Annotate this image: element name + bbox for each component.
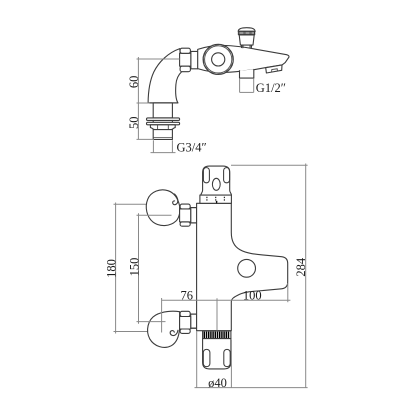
dim line 284 vertical [305,164,307,388]
rib bars [204,332,228,338]
index pointer [216,201,218,203]
top wall escutcheon blob [146,190,179,226]
ext line body left down to dia dim [196,331,198,388]
leg bottom edge line [148,102,178,104]
top union hex nut [180,209,191,222]
G3/4 leader ext lines [153,140,172,152]
G1/2 ext lines [240,78,254,92]
dim line 150 vertical [138,213,140,323]
diverter knurl band [238,31,254,34]
ext line body right down to dia dim [230,340,232,388]
ext line 150 top [137,214,172,216]
deck nut facet lines [158,125,169,130]
dim line 76/100 horizontal [162,299,291,301]
diverter tapered body [239,35,254,45]
svg-text:ø40: ø40 [208,376,227,390]
ext line at valve centerline [216,298,218,330]
svg-text:60: 60 [127,76,141,89]
nut bottom facet band [180,66,190,72]
control knob outer circle [203,44,233,74]
threaded tail pipe G3/4 [153,130,172,140]
scale tick dots [207,197,225,201]
valve body with right protrusion [197,203,288,330]
faucet leg (curved column) [148,49,181,103]
base washer plate 2 [147,122,180,125]
ribbed grip band [203,331,231,339]
bottom union hex nut [180,317,191,330]
handle center oval [212,178,220,190]
ext line 180 top (under blob) [114,203,166,205]
svg-text:150: 150 [127,258,141,277]
ext line at body axis (60 top) [137,58,180,60]
temperature handle (top knob) [201,166,232,195]
G3/4 leader line [151,152,176,154]
handle left groove [203,168,209,183]
svg-text:50: 50 [127,116,141,129]
ext line at thread bottom (50) [137,138,155,140]
top union curl [173,194,178,205]
top union pipe [191,208,197,223]
connector cylinder nut-to-body [191,51,198,68]
base shank cylinder [153,103,172,118]
G1/2 dim line [240,91,254,93]
diverter knob dome cap [238,28,255,32]
thread relief line [153,137,172,139]
diverter knurl hatch [240,32,254,35]
hex nut on body left [180,53,191,66]
bottom knob right groove [224,349,230,366]
aerator inner notch [272,69,278,72]
bottom wall escutcheon blob [148,311,180,347]
hand shower outlet stub G1/2 [240,69,254,78]
deck hex nut [150,125,175,130]
svg-text:G3/4″: G3/4″ [177,141,207,155]
knob facet polygon [203,44,233,74]
flow handle (bottom knob) [203,339,231,369]
knob center hole [212,53,225,66]
bottom union curl [170,330,178,335]
shank between washers [153,120,172,122]
handle right groove [224,168,230,183]
base washer plate 1 [147,118,180,121]
svg-text:G1/2″: G1/2″ [256,81,286,95]
svg-text:180: 180 [104,259,118,278]
ext line at protrusion right edge [287,283,289,302]
dim line 180 vertical [115,203,117,334]
knob inner ring [205,46,232,73]
ext line at base top (60/50) [137,102,150,104]
nut top facet band [180,48,190,53]
spout underside aerator tab [266,65,282,73]
diverter stem legs [242,45,252,48]
dim line dia40 / 284 bottom [195,387,308,389]
svg-text:284: 284 [294,257,308,277]
ext line 150 bottom [137,321,166,323]
bottom union pipe [191,314,197,328]
svg-text:100: 100 [243,288,262,302]
dim line 60/50 vertical [137,57,139,139]
ext line at bottom union wall center [161,298,163,333]
screw circle on protrusion [238,259,256,277]
ext line 284 top [231,164,308,166]
temperature scale band [200,195,232,203]
ext line 180 bottom (under blob) [114,331,164,333]
mixer body with spout [198,45,289,72]
bottom knob left groove [203,349,210,366]
svg-text:76: 76 [180,288,193,302]
